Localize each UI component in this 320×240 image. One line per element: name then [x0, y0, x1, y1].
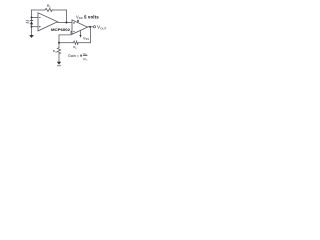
- wire node A down to RG: [58, 43, 60, 48]
- svg-text:R1: R1: [47, 4, 51, 9]
- wire feedback top rail left segment: [32, 9, 46, 11]
- photodiode D1 cathode bar: [30, 20, 33, 22]
- op-amp U1A MCP6002: [38, 13, 58, 31]
- svg-text:Gain = 1: Gain = 1: [68, 54, 82, 58]
- op-amp U1A minus sign: [39, 16, 41, 18]
- svg-text:MCP6002: MCP6002: [51, 27, 71, 32]
- VSS arrow: [79, 35, 81, 38]
- wire RF to right riser: [78, 42, 90, 44]
- junction node non-inverting input: [31, 26, 33, 28]
- wire feedback drop to output node: [66, 10, 68, 23]
- junction node A feedback divider: [58, 42, 60, 44]
- VSS pin stub: [80, 31, 82, 36]
- wire feedback riser to output: [90, 27, 92, 43]
- svg-text:5 volts: 5 volts: [84, 15, 99, 20]
- wire non-inverting input stub: [32, 26, 39, 28]
- wire op-amp2 inverting feedback L-path: [59, 31, 72, 42]
- resistor RF: [73, 41, 78, 44]
- junction node VOUT: [89, 26, 91, 28]
- VDD arrow: [77, 19, 79, 21]
- photodiode D1 triangle: [30, 21, 33, 24]
- svg-text:VDD: VDD: [76, 14, 83, 20]
- wire photodiode column upper: [31, 10, 33, 21]
- photodiode light arrow 1: [26, 20, 28, 23]
- ground bar at RG: [57, 65, 61, 67]
- wire RG to ground: [58, 54, 60, 62]
- VDD pin stub: [77, 21, 79, 23]
- ground symbol at RG: [57, 62, 61, 65]
- gain formula plus sign: [80, 54, 82, 56]
- junction node op-amp1 output: [65, 21, 67, 23]
- op-amp U1A plus sign: [39, 26, 41, 28]
- op-amp U1B MCP6002: [72, 20, 88, 34]
- ground symbol at photodiode: [29, 35, 34, 38]
- wire op-amp1 output to op-amp2 input: [58, 22, 73, 24]
- wire photodiode column lower: [31, 24, 33, 35]
- wire node A to resistor RF: [59, 42, 73, 44]
- photodiode light arrow 2: [26, 22, 28, 25]
- resistor R1: [45, 8, 52, 11]
- op-amp U1B minus sign: [73, 30, 75, 32]
- wire inverting input stub: [32, 16, 39, 18]
- wire op-amp2 output: [88, 26, 94, 28]
- wire feedback top rail right segment: [52, 9, 66, 11]
- junction node inverting input: [31, 16, 33, 18]
- op-amp U1B plus sign: [73, 22, 75, 24]
- output terminal circle: [93, 26, 95, 28]
- gain formula fraction bar: [83, 55, 87, 57]
- resistor RG: [57, 48, 60, 54]
